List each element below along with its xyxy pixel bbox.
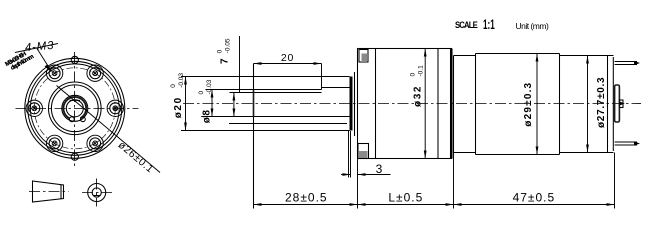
svg-text:47±0.5: 47±0.5 [513,191,556,205]
svg-text:4-M3: 4-M3 [24,40,54,55]
svg-text:0: 0 [216,49,223,53]
svg-text:Unit (mm): Unit (mm) [516,21,549,31]
svg-text:ø20: ø20 [173,96,184,118]
svg-text:1:1: 1:1 [483,18,495,33]
svg-text:ø27.7±0.3: ø27.7±0.3 [596,77,607,128]
svg-text:0: 0 [170,84,177,88]
svg-text:3: 3 [376,162,383,176]
svg-text:-0.05: -0.05 [224,38,231,53]
svg-text:20: 20 [281,52,294,64]
svg-text:-0.1: -0.1 [417,65,424,77]
svg-text:ø32: ø32 [413,85,424,107]
svg-text:-0.03: -0.03 [206,79,213,94]
svg-text:28±0.5: 28±0.5 [285,191,328,205]
svg-text:7: 7 [220,57,231,64]
svg-text:-0.03: -0.03 [178,73,185,88]
svg-text:ø29±0.3: ø29±0.3 [523,82,534,127]
svg-text:L±0.5: L±0.5 [388,191,423,205]
svg-text:0: 0 [198,91,205,95]
svg-text:0: 0 [409,73,416,77]
svg-text:SCALE: SCALE [455,19,478,30]
svg-text:ø8: ø8 [201,108,212,123]
